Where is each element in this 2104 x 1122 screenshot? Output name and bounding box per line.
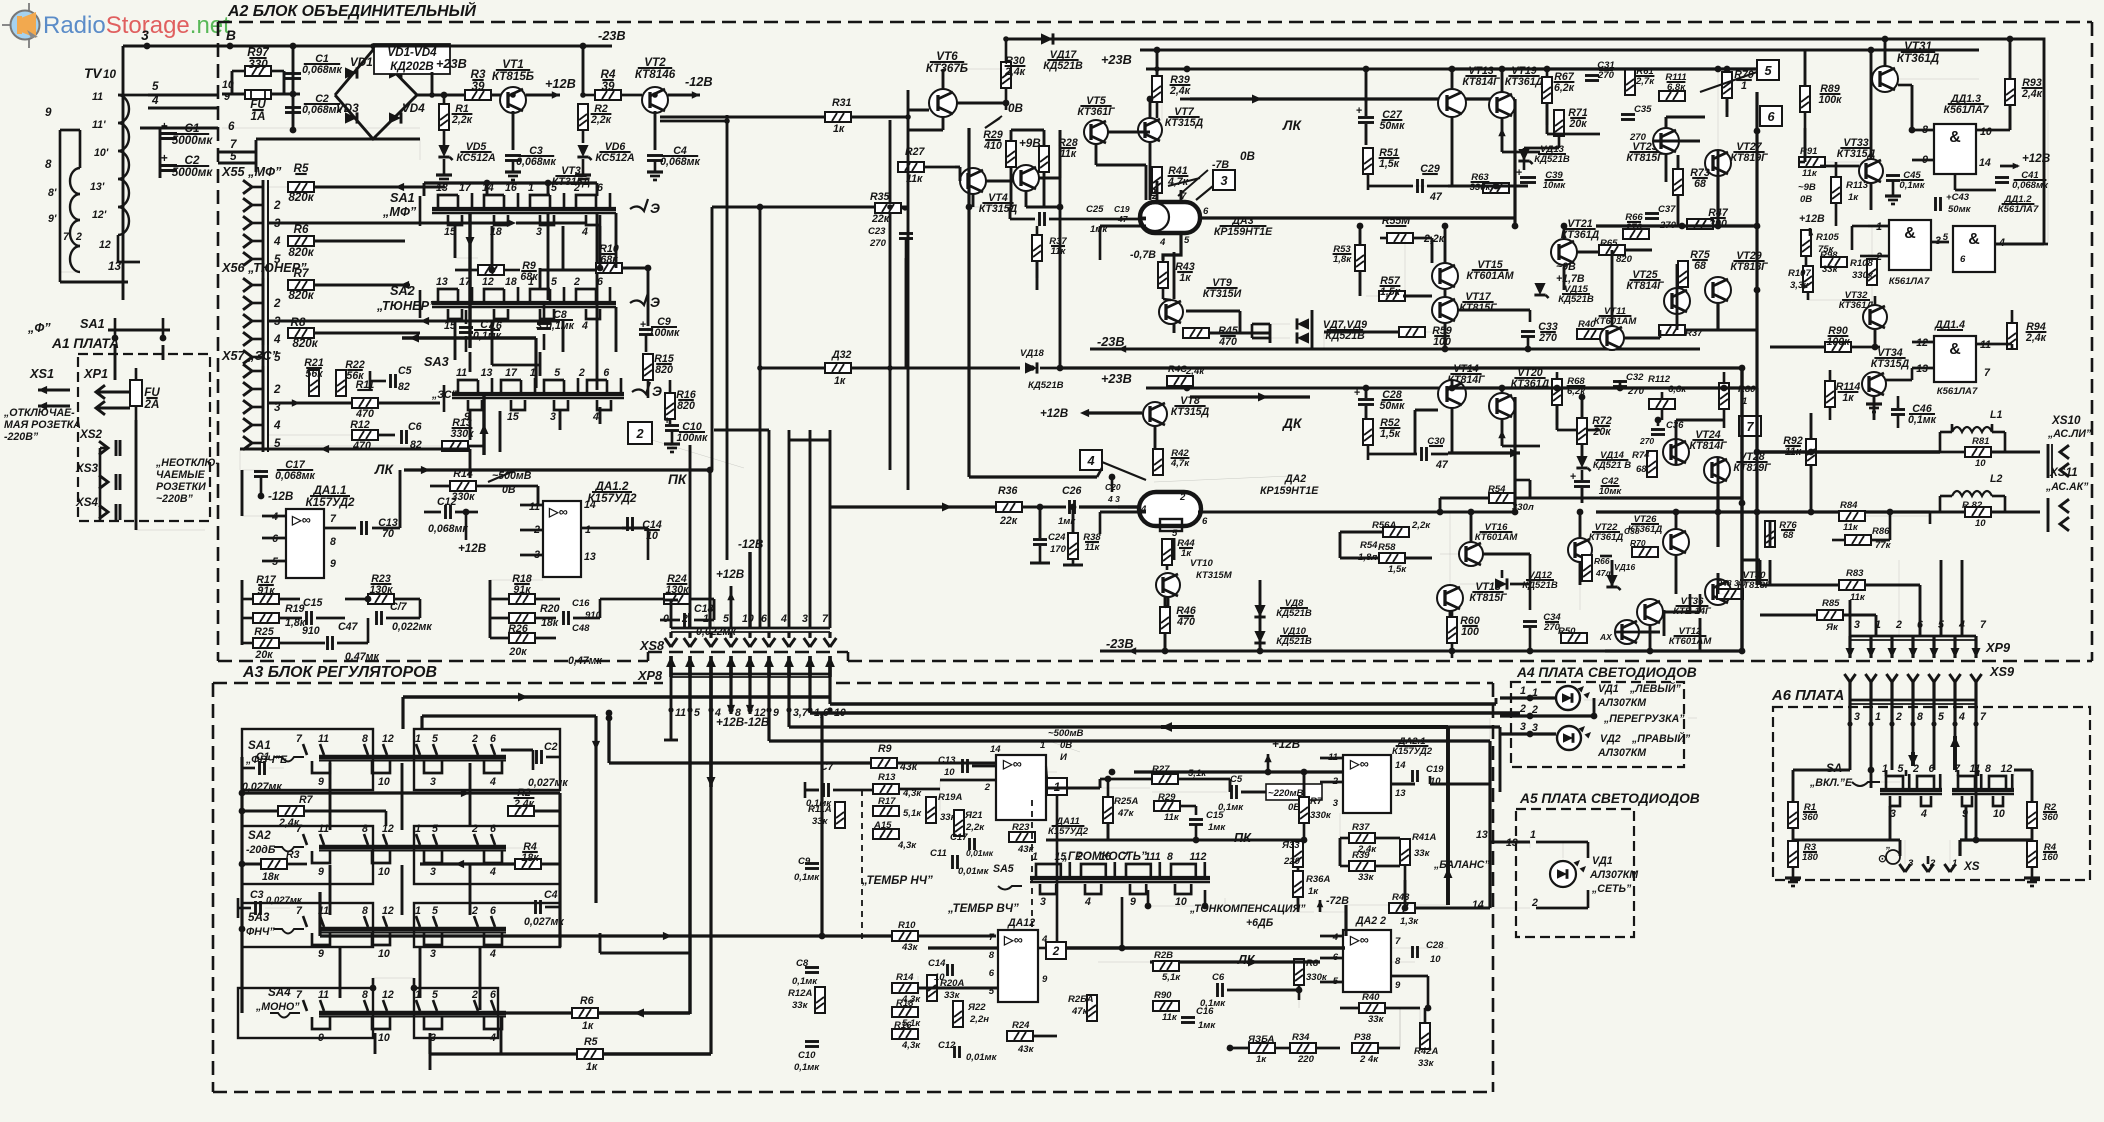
wire vt18 top	[1449, 512, 1451, 585]
svg-text:4: 4	[581, 226, 588, 238]
svg-text:ХS10: ХS10	[2051, 414, 2081, 427]
svg-text:6: 6	[228, 120, 235, 133]
capacitor C17 tone	[950, 832, 994, 858]
LED VD1 set	[1550, 842, 1639, 895]
svg-text:22к: 22к	[871, 213, 890, 225]
resistor R43 1.3k	[1389, 892, 1490, 927]
svg-text:R90: R90	[1154, 990, 1172, 1001]
wire vt4 e	[972, 194, 975, 207]
resistor R3 A6 180	[1785, 841, 1819, 886]
resistor R83 11k	[1760, 568, 1920, 603]
svg-text:10мк: 10мк	[1543, 180, 1567, 191]
svg-text:9: 9	[1130, 896, 1136, 908]
wire left drop	[122, 46, 125, 300]
svg-text:R5: R5	[584, 1036, 599, 1048]
transistor VT13 KT814G	[1438, 65, 1500, 117]
zener VD6 KC512A	[575, 141, 635, 183]
svg-text:АХ: АХ	[1599, 632, 1613, 642]
svg-text:360: 360	[1802, 812, 1819, 823]
wire sa1 col b	[491, 226, 494, 270]
svg-text:10мк: 10мк	[1599, 486, 1623, 497]
wire xs8 top joins	[714, 429, 769, 432]
wire vt4 base	[955, 166, 960, 169]
inductor L1	[1952, 409, 2002, 432]
op-amp DA1.1 K157UD2	[262, 484, 356, 578]
wire a3 v8	[419, 948, 422, 998]
svg-text:6: 6	[490, 989, 496, 1001]
svg-text:6: 6	[1960, 254, 1966, 265]
block frame A1	[51, 336, 210, 521]
svg-text:47: 47	[1429, 191, 1443, 203]
svg-text:SA3: SA3	[424, 354, 449, 369]
svg-text:4: 4	[1159, 237, 1166, 248]
fuse FU 2A	[130, 368, 160, 420]
svg-text:0,01мк: 0,01мк	[958, 866, 990, 877]
resistor R111 6.8k	[1659, 72, 1687, 101]
transistor VT24 KT814G	[1663, 429, 1727, 465]
svg-text:13: 13	[584, 551, 596, 563]
resistor R112 6.8k	[1648, 374, 1687, 409]
wire r37c col	[1036, 261, 1039, 290]
wire r39 top	[1156, 50, 1159, 76]
svg-text:ХS9: ХS9	[1989, 664, 2015, 679]
resistor R40 2.4k	[1167, 364, 1205, 386]
svg-text:0В: 0В	[1240, 150, 1255, 163]
connector XS1	[29, 366, 70, 410]
resistor R77	[1659, 325, 1703, 339]
svg-text:100к: 100к	[1818, 94, 1842, 106]
svg-text:R70: R70	[1630, 538, 1646, 548]
connector XS3	[75, 462, 120, 490]
capacitor C10 100mk	[664, 415, 708, 452]
svg-text:С16: С16	[572, 598, 590, 609]
svg-text:▷∞: ▷∞	[1349, 932, 1369, 947]
connector X56 TUNER	[221, 260, 307, 440]
svg-text:R39: R39	[1352, 850, 1370, 861]
svg-text:330: 330	[248, 58, 268, 71]
svg-text:13: 13	[481, 367, 493, 379]
wire arrow line A3 2	[242, 791, 560, 794]
svg-text:КТ315И: КТ315И	[1203, 288, 1242, 300]
svg-text:9: 9	[1395, 980, 1401, 991]
wires XS8 verticals up	[664, 445, 830, 628]
svg-text:9: 9	[773, 707, 779, 719]
svg-text:А2 БЛОК ОБЪЕДИНИТЕЛЬНЫЙ: А2 БЛОК ОБЪЕДИНИТЕЛЬНЫЙ	[227, 0, 476, 20]
wire bridge to rails	[256, 46, 455, 160]
svg-text:SA2: SA2	[390, 283, 415, 298]
svg-text:R25: R25	[254, 626, 275, 638]
svg-text:1,5к: 1,5к	[1379, 158, 1400, 170]
resistor R38 11k	[1063, 504, 1101, 565]
svg-text:+: +	[161, 120, 168, 133]
transistor VT17 KT815G	[1432, 291, 1497, 323]
capacitor C31 270	[1585, 60, 1615, 81]
wire r112 col	[1661, 392, 1664, 398]
resistor R13 4.3k	[873, 772, 940, 799]
connector XS2	[79, 428, 120, 456]
wire vt26 vt30	[1675, 555, 1678, 570]
svg-text:10': 10'	[94, 147, 109, 159]
svg-text:ДА2: ДА2	[1284, 473, 1306, 485]
wire r41a col	[1404, 880, 1407, 908]
svg-text:3: 3	[1333, 798, 1339, 809]
transistor VT36 KT814G	[1637, 596, 1712, 625]
wire vt7 c	[1161, 99, 1163, 120]
wire r89 r91	[1804, 128, 1807, 162]
svg-text:R107: R107	[1788, 268, 1811, 279]
wire rail 69 extension	[1448, 67, 1757, 70]
wire dd11 in	[1852, 225, 1868, 228]
wire da21 out r	[1391, 783, 1415, 786]
svg-text:0В: 0В	[1800, 194, 1812, 205]
svg-text:„ВКЛ.”Е: „ВКЛ.”Е	[1809, 777, 1853, 789]
svg-text:R12А: R12А	[788, 988, 812, 999]
svg-text:2А: 2А	[144, 398, 160, 411]
svg-text:&: &	[1949, 341, 1960, 358]
svg-text:R19А: R19А	[938, 792, 962, 803]
resistor R68 6.2k	[1552, 372, 1586, 425]
svg-text:КР159НТ1Е: КР159НТ1Е	[1260, 485, 1319, 497]
svg-text:R18: R18	[896, 998, 914, 1009]
fuse FU 1A	[222, 79, 300, 123]
svg-text:10: 10	[1993, 808, 2005, 820]
svg-text:820: 820	[1616, 254, 1633, 265]
svg-text:7: 7	[1746, 419, 1754, 434]
wire 13 to A5	[1476, 829, 1588, 858]
transistor VT11 KT601AM	[1594, 306, 1638, 350]
wire r35 right dot	[901, 207, 908, 210]
svg-text:К157УД2: К157УД2	[1048, 826, 1089, 837]
svg-text:КТ315Д: КТ315Д	[1171, 406, 1210, 418]
wire vt33 top	[1870, 50, 1873, 159]
capacitor C26 1mk	[1058, 482, 1139, 527]
svg-text:12: 12	[382, 733, 394, 745]
svg-text:2,4к: 2,4к	[2021, 88, 2043, 100]
svg-text:SA1: SA1	[80, 316, 105, 331]
resistor R25A 47k	[1103, 796, 1138, 823]
resistor R14 4.3k tone	[892, 972, 921, 1005]
svg-text:50мк: 50мк	[1380, 400, 1406, 412]
resistor R15 4.3k	[873, 820, 917, 851]
wire r76 col	[1769, 521, 1772, 547]
capacitor C37 270	[1645, 204, 1677, 231]
svg-text:С37: С37	[1658, 204, 1676, 215]
transistor VT22 KT361D	[1568, 522, 1623, 562]
svg-text:„АС.АК”: „АС.АК”	[2045, 481, 2089, 493]
XP8 pin numbers	[668, 707, 845, 719]
wire vt29 col	[1716, 303, 1719, 330]
connector XP1	[83, 366, 130, 415]
wire vt25 col	[1676, 264, 1679, 288]
wire low mesh 7	[1579, 585, 1581, 610]
wire a3 v4	[329, 865, 332, 915]
svg-text:-23В: -23В	[1097, 334, 1125, 349]
pot R41A 33k	[1400, 832, 1436, 880]
svg-text:TV: TV	[84, 66, 103, 81]
wire vt16 top	[1470, 512, 1473, 542]
svg-text:КР159НТ1Е: КР159НТ1Е	[1214, 226, 1273, 238]
resistor R6 A3 1k	[498, 995, 690, 1032]
resistor R71 20k	[1554, 107, 1588, 136]
resistor R21 2.2k	[954, 810, 985, 836]
bridge VD1-VD4 KD202V	[335, 44, 450, 139]
wire sa2 col d	[615, 307, 618, 352]
wire da12 out right	[622, 527, 648, 530]
svg-text:2: 2	[471, 989, 478, 1001]
label ~500mV	[1046, 728, 1084, 752]
wire vt26 col2	[1675, 570, 1678, 594]
svg-text:2,4к: 2,4к	[1169, 85, 1191, 97]
svg-text:10: 10	[1975, 458, 1986, 469]
resistor R9 68k	[455, 260, 538, 283]
wires tone right	[1391, 727, 1500, 948]
wire vt36 row	[1663, 611, 1700, 614]
transistor VT6 KT367B	[926, 50, 1006, 117]
svg-text:+23В: +23В	[436, 56, 467, 71]
svg-text:R36А: R36А	[1306, 874, 1330, 885]
svg-text:68: 68	[1694, 178, 1706, 190]
svg-text:R81: R81	[1972, 436, 1990, 447]
svg-text:С23: С23	[868, 226, 886, 237]
resistor R2 2.2k	[578, 103, 612, 143]
wire r33 col	[1297, 866, 1300, 871]
svg-text:1мк: 1мк	[1208, 822, 1226, 833]
svg-text:1: 1	[530, 367, 536, 379]
wire vd7 left bar	[1269, 317, 1272, 320]
connector XS A6	[1899, 856, 1979, 873]
label balans	[1346, 727, 1490, 905]
wire c39 r63 row	[1448, 185, 1528, 188]
svg-text:R86: R86	[1872, 526, 1890, 537]
wire r53 col	[1359, 226, 1362, 245]
svg-text:R7: R7	[294, 267, 309, 280]
gate DD1.3 K561LA7	[1912, 93, 2010, 174]
svg-text:R10: R10	[898, 920, 916, 931]
capacitor C5 0.1mk	[1218, 774, 1265, 813]
wire right col 1742	[1740, 368, 1743, 651]
svg-text:R35: R35	[870, 191, 891, 203]
svg-text:3: 3	[141, 28, 149, 43]
wire vd17 right	[1056, 38, 1140, 40]
transistor VT25 KT814G	[1626, 269, 1690, 314]
resistor R42 4.7k	[1153, 448, 1190, 475]
svg-text:10: 10	[1175, 896, 1187, 908]
capacitor C77 0.022mk	[377, 599, 433, 633]
svg-text:4: 4	[1332, 932, 1339, 943]
svg-text:4,3к: 4,3к	[901, 1040, 921, 1051]
capacitor C10 0.1mk tone	[794, 1042, 820, 1074]
svg-text:330к: 330к	[1852, 270, 1874, 281]
label ~220mV	[1266, 784, 1322, 813]
resistor R7 820k	[288, 267, 410, 302]
svg-text:1,8к: 1,8к	[1333, 254, 1352, 265]
wire A6 mid	[1793, 840, 2032, 856]
wires A1 plate	[100, 345, 205, 530]
svg-text:С13: С13	[938, 755, 956, 766]
wire a6 bank drops	[1889, 806, 1892, 840]
wire A3 left bus	[239, 757, 246, 1013]
svg-text:9: 9	[224, 91, 230, 103]
svg-text:R56А: R56А	[1372, 520, 1396, 531]
svg-text:VД16: VД16	[1614, 562, 1635, 572]
op-amp DA12	[989, 917, 1048, 1002]
resistor R33 220	[1281, 840, 1303, 867]
wire c32 col	[1619, 380, 1622, 388]
svg-text:-23В: -23В	[1106, 636, 1134, 651]
svg-text:11к: 11к	[1164, 812, 1180, 823]
block frame A6	[1771, 688, 2090, 880]
svg-text:С32: С32	[1626, 372, 1644, 383]
svg-text:82: 82	[398, 381, 410, 393]
svg-text:▷∞: ▷∞	[1349, 756, 1369, 771]
svg-text:R91: R91	[1800, 146, 1818, 157]
svg-text:8: 8	[1167, 851, 1173, 863]
svg-text:220: 220	[1297, 1054, 1315, 1065]
svg-text:22к: 22к	[999, 515, 1018, 527]
svg-text:11к: 11к	[1802, 168, 1818, 179]
transistor VT29 KT818G	[1705, 250, 1768, 303]
svg-text:КТ601АМ: КТ601АМ	[1669, 636, 1713, 647]
svg-text:КТ361Д: КТ361Д	[1628, 524, 1663, 535]
svg-text:+23В: +23В	[1101, 371, 1132, 386]
svg-text:-0,7В: -0,7В	[1130, 249, 1156, 261]
svg-text:33к: 33к	[1414, 848, 1431, 859]
svg-text:R14: R14	[896, 972, 914, 983]
wire vt6 c	[957, 102, 1006, 105]
svg-text:180: 180	[1802, 852, 1819, 863]
wire vt6 top	[942, 69, 945, 89]
svg-text:R16: R16	[894, 1020, 912, 1031]
resistor R2 A3 2.4k	[508, 787, 560, 947]
svg-text:111: 111	[1145, 851, 1161, 863]
wire low mesh 4	[1689, 594, 1692, 614]
svg-text:10: 10	[934, 972, 945, 983]
wire sa2 col a	[454, 320, 457, 360]
svg-text:11: 11	[92, 91, 103, 103]
svg-text:8: 8	[45, 158, 52, 171]
wires XP8 to right	[769, 698, 1520, 741]
wire da3 pin6 r	[1140, 217, 1146, 220]
svg-text:9: 9	[318, 1032, 324, 1044]
wire vt22 c38	[1600, 555, 1612, 558]
svg-text:КД521В: КД521В	[1028, 380, 1064, 391]
wire tonkomp v	[1224, 898, 1226, 910]
svg-text:8: 8	[1917, 711, 1923, 723]
capacitor C13 10 tone	[938, 755, 996, 778]
diodes VD7 VD9 KD521V	[1270, 310, 1367, 349]
capacitor C41 0.068	[1995, 170, 2049, 191]
svg-text:R19: R19	[285, 603, 305, 615]
resistor R16 820	[665, 380, 696, 424]
svg-text:0,1мк: 0,1мк	[1899, 180, 1925, 191]
wire r93 rails	[2009, 39, 2012, 79]
svg-text:820к: 820к	[288, 246, 314, 259]
wire low col 1700	[1699, 618, 1702, 651]
svg-text:-12В: -12В	[685, 74, 713, 89]
svg-text:9: 9	[318, 776, 324, 788]
svg-text:+: +	[1356, 105, 1362, 117]
wire r29 c15	[1180, 805, 1196, 808]
svg-text:20к: 20к	[1568, 118, 1587, 130]
wire out to L1	[1757, 450, 1940, 453]
svg-text:4: 4	[592, 411, 599, 423]
wire vt10 bottom	[1165, 606, 1168, 607]
svg-text:9: 9	[318, 866, 324, 878]
wire c23 bottom	[905, 258, 908, 368]
wire +23V rail upper	[1101, 52, 1448, 72]
svg-text:12: 12	[2001, 763, 2013, 775]
wire da11 c5 row	[1229, 779, 1232, 792]
svg-text:5: 5	[1764, 63, 1772, 78]
svg-text:8: 8	[330, 536, 336, 548]
wires transformer to A2	[148, 94, 218, 97]
wire r41 pair	[1149, 165, 1152, 200]
svg-text:15: 15	[507, 411, 520, 423]
wire vt21 stubs	[1577, 251, 1600, 254]
svg-text:R105: R105	[1816, 232, 1839, 243]
svg-text:14: 14	[1395, 760, 1406, 771]
svg-text:6: 6	[490, 823, 496, 835]
svg-text:R20: R20	[540, 603, 560, 615]
wire r64 col	[1439, 498, 1442, 512]
wire xs8 up v3	[809, 430, 812, 560]
svg-text:47: 47	[1435, 459, 1449, 471]
wires above SA1	[402, 180, 597, 455]
resistor R113 1k	[1798, 177, 1869, 205]
svg-text:КТ819Г: КТ819Г	[1730, 152, 1768, 164]
resistor R3 39	[465, 68, 491, 100]
resistor R64 330	[1440, 484, 1600, 513]
svg-text:33к: 33к	[1368, 1014, 1385, 1025]
svg-text:0,068мк: 0,068мк	[302, 64, 342, 76]
op-amp DA21	[1320, 736, 1433, 813]
wire a4 LED wires	[1584, 699, 1600, 701]
diode VD14 KD521V	[1576, 444, 1631, 471]
node box 2 tone	[1038, 942, 1066, 959]
wire c25 left	[1009, 207, 1012, 219]
svg-text:Х55 „МФ”: Х55 „МФ”	[221, 164, 282, 179]
wire x2044 ext	[2043, 120, 2046, 244]
svg-text:1: 1	[1875, 711, 1881, 723]
svg-text:33к: 33к	[792, 1000, 809, 1011]
transistor VT31 KT361D	[1872, 40, 1979, 92]
svg-text:2: 2	[471, 823, 478, 835]
switch SA1 mains	[27, 316, 170, 341]
capacitor C30 47	[1368, 436, 1449, 471]
node box 3	[1196, 170, 1235, 200]
svg-text:8: 8	[1395, 956, 1401, 967]
capacitor C11 0.01mk	[930, 848, 990, 877]
svg-text:ЛК: ЛК	[1282, 118, 1302, 133]
capacitor C16 910 C48	[564, 598, 603, 667]
svg-text:„ОТКЛЮЧАЕ-: „ОТКЛЮЧАЕ-	[3, 407, 75, 419]
svg-text:2: 2	[681, 613, 688, 625]
svg-text:5: 5	[1943, 232, 1949, 243]
svg-text:1: 1	[1530, 829, 1536, 841]
wire r47 join	[1713, 223, 1757, 225]
resistor R81 10	[1940, 432, 2040, 469]
capacitor C13 70	[362, 470, 401, 540]
resistor R37 11k	[1032, 226, 1067, 278]
svg-text:3: 3	[1220, 173, 1227, 188]
resistor R90 100k	[1770, 325, 1880, 352]
svg-text:ДК: ДК	[1282, 416, 1303, 431]
svg-text:2: 2	[471, 733, 478, 745]
svg-text:2,4к: 2,4к	[1004, 66, 1026, 78]
wire r46 bot	[1164, 633, 1167, 651]
wire tone rail dots	[1109, 769, 1116, 776]
svg-text:14: 14	[1472, 899, 1484, 911]
